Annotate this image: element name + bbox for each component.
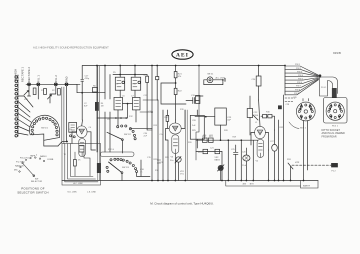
resistor R2a (44, 89, 47, 95)
svg-text:R27: R27 (210, 135, 213, 137)
AC pilot lamp (207, 77, 213, 83)
jack terminal J2 (37, 83, 40, 86)
fuse F1 (332, 163, 338, 167)
svg-text:COMB: COMB (47, 159, 54, 161)
svg-text:F1 2: F1 2 (332, 171, 337, 173)
svg-text:PIN 2: PIN 2 (296, 68, 302, 70)
svg-text:PIN 1: PIN 1 (295, 64, 301, 66)
screened pair down left (62, 87, 64, 144)
svg-text:R9: R9 (116, 84, 118, 86)
SW1/2 out wire (130, 128, 152, 130)
plug body (320, 77, 338, 98)
svg-text:R23: R23 (198, 152, 203, 154)
bottom ground rail (62, 180, 318, 182)
V3 top wire (175, 120, 177, 123)
svg-text:R12: R12 (129, 116, 134, 118)
vertical wire x110 (109, 75, 111, 153)
svg-text:C22: C22 (254, 112, 259, 114)
RC network box B2 (133, 97, 141, 110)
heater wires left (157, 160, 160, 163)
wires into SKT (285, 98, 295, 102)
svg-text:C15: C15 (147, 157, 152, 159)
svg-text:R15: R15 (154, 125, 159, 127)
svg-text:939/B: 939/B (333, 51, 341, 55)
svg-text:25uF: 25uF (242, 165, 247, 167)
below-rail bracket (226, 181, 301, 187)
svg-text:483: 483 (243, 184, 247, 186)
grid network box left of V1 (69, 123, 77, 133)
component value micro labels (24, 72, 298, 176)
svg-text:S.U. LINK: S.U. LINK (67, 192, 77, 194)
small box x197 (196, 96, 200, 104)
svg-text:1M: 1M (101, 106, 104, 108)
pin labels (294, 64, 304, 95)
wires boxes row1 (120, 66, 135, 98)
svg-text:C4: C4 (89, 127, 92, 129)
wire J4 down (66, 86, 68, 142)
svg-text:PLG 1: PLG 1 (332, 126, 339, 128)
vertical x220 (221, 125, 223, 180)
ditto caption (322, 129, 346, 139)
position diagram pointer (23, 163, 34, 175)
feedback loop wire (161, 83, 186, 104)
vertical wire x105 (104, 66, 106, 153)
tone wire y151.5 (196, 151, 222, 153)
svg-text:PIN 7: PIN 7 (296, 86, 302, 88)
wire J2 down (37, 86, 39, 99)
svg-text:M. Circuit diagram of control: M. Circuit diagram of control unit, Type… (150, 202, 214, 206)
V1 top cap wire (81, 120, 84, 126)
svg-text:L1: L1 (255, 122, 258, 124)
AEI logo oval (172, 50, 193, 59)
C23 block (215, 108, 227, 125)
wire R21-R22 (175, 66, 177, 121)
block wires (196, 110, 198, 148)
svg-text:V3: V3 (171, 157, 174, 159)
svg-text:RADIO: RADIO (40, 155, 47, 158)
svg-text:SW 1/2: SW 1/2 (124, 134, 132, 136)
svg-text:BASS: BASS (215, 159, 221, 162)
svg-text:4uF: 4uF (227, 120, 231, 122)
svg-text:RAD: RAD (65, 76, 69, 82)
vertical x283 (283, 95, 285, 181)
svg-text:P.U. 1: P.U. 1 (36, 75, 40, 82)
svg-text:HTR: HTR (295, 162, 300, 164)
pot VR5 (288, 163, 293, 181)
svg-text:REC TAPE 1: REC TAPE 1 (21, 67, 25, 82)
diode dark box (278, 105, 282, 109)
switch spindle bar (100, 152, 134, 156)
svg-text:PIN 9: PIN 9 (294, 93, 300, 95)
svg-text:P.U. 2: P.U. 2 (54, 75, 58, 82)
svg-text:R22: R22 (178, 91, 183, 93)
wire from J1 down (28, 86, 31, 96)
socket SKT1 outer (289, 99, 315, 129)
pot arrow VR1 (24, 91, 29, 96)
nested screen box lower-left (62, 144, 101, 186)
svg-text:R29: R29 (233, 137, 238, 139)
resistor R2 (58, 89, 61, 96)
svg-text:B78: B78 (250, 184, 255, 186)
svg-text:R19: R19 (180, 109, 185, 111)
mid vertical wires (152, 66, 163, 181)
svg-text:C14: C14 (160, 134, 165, 136)
svg-text:R5: R5 (113, 72, 116, 74)
junction to screened pair (66, 141, 68, 143)
SW1/1 contacts (31, 117, 58, 136)
resistor R1 (33, 88, 36, 95)
svg-text:V2: V2 (256, 161, 259, 163)
resistor R8 (146, 76, 149, 82)
svg-text:FULL P.U.: FULL P.U. (20, 158, 30, 160)
V2 side wires (251, 133, 269, 151)
svg-text:PIN 3: PIN 3 (297, 71, 303, 73)
svg-text:R28: R28 (224, 130, 229, 132)
svg-text:R10: R10 (133, 84, 136, 86)
svg-text:L.S. LINK: L.S. LINK (87, 192, 97, 194)
V3 side wires (166, 110, 186, 140)
capacitor C17 (81, 79, 84, 81)
electrolytic C27 oval (272, 144, 278, 151)
svg-text:EARTH: EARTH (303, 185, 311, 188)
R14 resistor (74, 160, 77, 167)
wire J3 down (50, 86, 56, 103)
valve V2 envelope (255, 126, 266, 157)
svg-text:SELECTOR: SELECTOR (31, 181, 43, 183)
pot VR3 (176, 157, 181, 162)
SW1/3 out wires (122, 160, 150, 181)
svg-text:2: 2 (36, 155, 38, 157)
svg-text:R31: R31 (287, 159, 292, 161)
SW1/2 arm (107, 132, 122, 139)
C24 box on HT feed (256, 76, 261, 86)
svg-text:V1: V1 (78, 160, 81, 162)
link wires inside box (75, 152, 90, 176)
svg-text:C25: C25 (231, 149, 236, 151)
svg-text:C29: C29 (293, 97, 298, 99)
V2 top wires (253, 100, 260, 126)
svg-text:PIN 4: PIN 4 (298, 75, 304, 77)
vertical x278 (278, 120, 280, 181)
dashed heater line (292, 164, 331, 166)
bottom-right bracket box (301, 181, 319, 189)
cable convergence blob (319, 74, 322, 77)
jack terminal J3 (54, 83, 57, 86)
wires near C5 (96, 66, 98, 153)
jack terminal J1 (28, 83, 31, 86)
C22 box (247, 109, 252, 118)
svg-text:PIN 8: PIN 8 (295, 89, 301, 91)
SW1/1 stem wire (44, 140, 58, 146)
svg-text:P.U. RAD: P.U. RAD (16, 161, 25, 164)
electrolytic C26 oval (243, 155, 250, 161)
selector switch SW1/1 sector outline (30, 115, 60, 140)
RC network box A1 (115, 77, 124, 90)
svg-text:SW 1/4: SW 1/4 (108, 149, 114, 151)
svg-text:470p: 470p (85, 78, 90, 80)
svg-text:47k: 47k (178, 76, 182, 78)
svg-text:C27: C27 (270, 141, 275, 143)
svg-text:C20: C20 (192, 120, 197, 122)
valve V1 envelope (76, 126, 87, 157)
left feed wire from rail (81, 66, 83, 121)
vertical x228 (227, 140, 229, 180)
svg-text:R24: R24 (165, 157, 170, 159)
wire RAD to C17 (68, 84, 105, 92)
svg-text:FROM REAR: FROM REAR (322, 136, 337, 139)
svg-text:50u: 50u (170, 160, 174, 162)
svg-text:VOL: VOL (180, 174, 185, 176)
tone network wire y140 (196, 139, 258, 141)
svg-text:C19: C19 (191, 95, 196, 97)
svg-text:T1: T1 (64, 154, 67, 156)
svg-text:SELECTOR SWITCH: SELECTOR SWITCH (17, 191, 48, 195)
SW1/2 wafer contacts (117, 125, 137, 140)
svg-text:PIN 5: PIN 5 (298, 78, 304, 80)
position marker circles (19, 157, 45, 172)
small boxes y149 (203, 149, 208, 153)
plug PLG1 outer square (324, 98, 348, 124)
svg-text:8uF: 8uF (84, 106, 88, 108)
top HT rail (83, 65, 286, 67)
vertical x241 (241, 140, 246, 180)
svg-text:C28: C28 (286, 104, 291, 106)
wires below boxes (118, 110, 136, 126)
svg-text:C21: C21 (210, 148, 215, 150)
coupling wires x147 (147, 129, 152, 131)
V1 side wires (72, 132, 96, 150)
svg-text:C24: C24 (252, 79, 257, 81)
svg-text:PLG 1: PLG 1 (321, 87, 326, 89)
vertical x253 (252, 140, 254, 180)
screened pair mid (98, 66, 100, 180)
svg-text:SW: SW (35, 179, 38, 181)
svg-text:R20: R20 (188, 142, 193, 144)
wires strip to switch (18, 96, 34, 135)
grid cap box (156, 77, 159, 80)
svg-text:1n: 1n (140, 172, 143, 174)
SW1/3 wafer contacts (110, 158, 138, 172)
electrolytic C5 dark (95, 102, 99, 111)
screened pair right of V3 (185, 110, 187, 180)
V2 grid components (263, 115, 267, 118)
SKT1 wires down (304, 121, 308, 181)
resistor R17 (166, 115, 169, 121)
pot arrow VR1a (48, 95, 52, 99)
svg-text:A.C. 250V: A.C. 250V (216, 76, 226, 79)
capacitor C19 (186, 98, 199, 104)
RC network box A2 (131, 77, 141, 90)
svg-text:AEI: AEI (176, 53, 189, 59)
svg-text:MIC: MIC (14, 170, 18, 172)
component block box (190, 115, 204, 139)
coupling horizontals (140, 100, 157, 112)
resistor R21 (174, 72, 177, 78)
pot VR4 dark (218, 165, 224, 171)
svg-text:2uF: 2uF (144, 136, 148, 138)
svg-text:SW 1/1: SW 1/1 (41, 128, 49, 130)
sub rail (113, 74, 147, 76)
screened cable end dark (97, 163, 101, 173)
C31 box (79, 146, 84, 153)
svg-text:REC TAPE 2: REC TAPE 2 (27, 67, 31, 82)
wire between B boxes (123, 103, 133, 105)
jack terminal J4 (65, 83, 68, 86)
svg-text:A.C. LINK: A.C. LINK (73, 182, 83, 185)
tone resistor boxes (203, 138, 208, 142)
vertical x268 (268, 150, 270, 181)
svg-text:SW 1/3: SW 1/3 (122, 167, 130, 169)
SW1/3 arm (109, 162, 122, 172)
position diagram labels (14, 155, 54, 172)
svg-text:R30: R30 (266, 112, 271, 114)
svg-text:R25: R25 (192, 130, 197, 132)
RC network box B1 (114, 97, 123, 110)
input bus wire (26, 83, 80, 85)
svg-text:C26: C26 (242, 152, 247, 154)
grid stopper box (93, 88, 98, 93)
cap C25 (233, 145, 238, 181)
svg-text:R26: R26 (203, 135, 206, 137)
value labels mid-bottom (140, 157, 174, 174)
svg-text:A.E.I HIGH-FIDELITY SOUND-RE: A.E.I HIGH-FIDELITY SOUND-REPRODUCTION E… (33, 46, 109, 50)
cable fan to plug (285, 66, 319, 95)
svg-text:2uF: 2uF (192, 125, 196, 127)
svg-text:NE 51: NE 51 (208, 74, 215, 76)
valve V3 envelope (169, 123, 181, 153)
svg-text:MIC HIGH: MIC HIGH (13, 69, 17, 81)
svg-text:C6: C6 (122, 96, 125, 98)
svg-text:R16: R16 (155, 170, 160, 172)
svg-text:PIN 6: PIN 6 (297, 82, 303, 84)
svg-text:R2: R2 (52, 90, 55, 92)
terminal strip (left column of solder tags) (15, 75, 18, 137)
resistor R22 (174, 88, 177, 94)
mid bottom verticals (166, 140, 169, 181)
left edge of tone box (196, 66, 199, 161)
grid wire with dot (195, 116, 215, 118)
HT feed vertical from rail (284, 66, 286, 96)
